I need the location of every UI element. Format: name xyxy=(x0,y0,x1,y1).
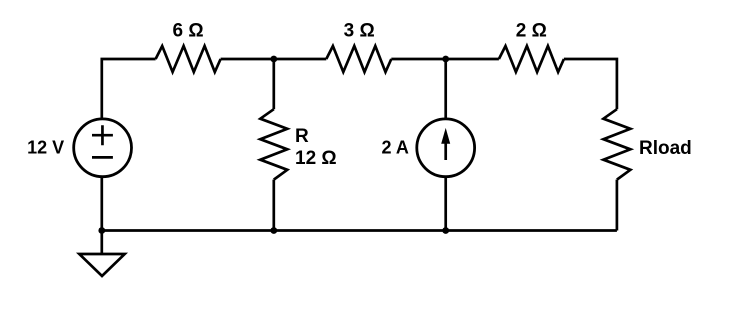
svg-text:R: R xyxy=(295,126,309,147)
svg-text:2 Ω: 2 Ω xyxy=(516,20,547,41)
voltage source plus sign xyxy=(92,125,113,145)
resistor 2 ohm xyxy=(499,46,564,72)
svg-text:12 Ω: 12 Ω xyxy=(295,148,337,169)
ground symbol triangle xyxy=(79,254,124,276)
wire node A to R 12 ohm xyxy=(272,59,275,109)
wire right vertical below Rload xyxy=(616,180,619,231)
voltage source V1 circle xyxy=(74,119,132,177)
voltage source minus sign xyxy=(92,156,113,159)
node junction dot bottom under current source xyxy=(442,227,449,234)
wire top between 3 ohm and 2 ohm xyxy=(391,58,499,61)
wire top-right corner down to Rload xyxy=(564,59,617,109)
wire top between 6 ohm and 3 ohm xyxy=(221,58,327,61)
wire top-left vertical xyxy=(102,59,156,119)
node junction dot bottom under R xyxy=(270,227,277,234)
current source arrow xyxy=(441,128,450,160)
wire current source to bottom xyxy=(444,177,447,231)
svg-text:2 A: 2 A xyxy=(382,137,409,157)
svg-text:12 V: 12 V xyxy=(27,137,64,157)
node junction dot top after 6 ohm xyxy=(270,56,277,63)
wire ground stem xyxy=(100,231,103,255)
wire node B to current source xyxy=(444,59,447,119)
resistor R 12 ohm xyxy=(260,109,287,179)
resistor 3 ohm xyxy=(326,46,391,72)
resistor 6 ohm xyxy=(156,46,221,72)
current source I1 circle xyxy=(417,119,475,177)
wire bottom xyxy=(102,229,617,232)
svg-text:6 Ω: 6 Ω xyxy=(173,20,204,41)
wire voltage source bottom lead xyxy=(100,177,103,231)
wire R 12 ohm to bottom xyxy=(272,180,275,231)
node junction dot bottom-left ground xyxy=(98,227,105,234)
resistor Rload xyxy=(603,109,630,179)
node junction dot top after 3 ohm xyxy=(442,56,449,63)
svg-text:3 Ω: 3 Ω xyxy=(344,20,375,41)
svg-text:Rload: Rload xyxy=(639,138,692,159)
